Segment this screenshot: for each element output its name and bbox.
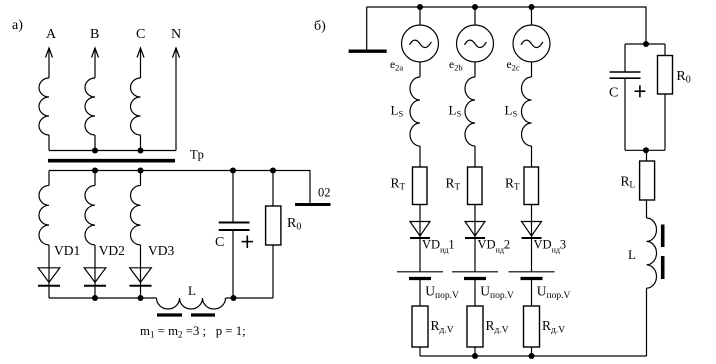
junction dot top-e2a — [417, 4, 423, 10]
svg-text:VDид3: VDид3 — [534, 238, 567, 255]
svg-text:LS: LS — [505, 103, 518, 119]
svg-text:VD1: VD1 — [54, 243, 80, 258]
wire R0 top lead — [272, 171, 274, 207]
inductor LS1 — [410, 77, 420, 146]
wire C winding to primary bus — [140, 135, 142, 151]
svg-text:Uпор.V: Uпор.V — [537, 284, 571, 302]
junction dot bottom-VD2 — [92, 295, 98, 301]
battery Upor2 — [452, 272, 498, 279]
bottom bus wire left — [49, 297, 157, 299]
input terminal bar — [349, 50, 387, 53]
phase N arrow / neutral wire — [173, 48, 180, 151]
svg-text:б): б) — [314, 19, 326, 34]
diode VD2 — [84, 268, 106, 286]
wire L to bottom bus — [646, 288, 648, 356]
inductor L (filter choke) — [157, 298, 226, 309]
wire R0b top lead — [664, 44, 666, 56]
resistor R0 — [266, 206, 281, 245]
svg-text:L: L — [188, 283, 196, 298]
bottom bus wire right — [226, 297, 274, 299]
wire RL to inductor L — [646, 200, 648, 218]
inductor LS2 — [465, 77, 475, 146]
wire VD1 to battery — [419, 239, 421, 272]
core bar 1 of L — [157, 313, 182, 316]
wire RdV3 to bottom bus — [531, 347, 533, 356]
wire secondary bus to winding w3 — [140, 171, 142, 186]
wire RdV2 to bottom bus — [474, 347, 476, 356]
junction dot secondary-w2 — [92, 168, 98, 174]
wire VD2 to bottom bus — [94, 286, 96, 298]
svg-text:B: B — [90, 27, 99, 42]
inductor L (circuit b) — [647, 218, 657, 288]
wire e2b to LS2 — [474, 62, 476, 77]
junction dot primary-B — [92, 148, 98, 154]
junction dot bottom-e2c branch — [529, 353, 535, 359]
secondary winding w2 — [85, 186, 95, 245]
transformer core Tp — [48, 159, 175, 163]
diode VDid1 — [410, 222, 430, 239]
resistor RT2 — [468, 167, 483, 205]
primary bus wire — [49, 150, 176, 152]
svg-text:e2a: e2a — [390, 59, 403, 73]
wire e2c to LS3 — [531, 62, 533, 77]
wire VD3 to battery — [531, 239, 533, 272]
input terminal wire — [366, 7, 368, 50]
svg-text:A: A — [46, 27, 57, 42]
resistor RdV3 — [524, 306, 540, 347]
svg-text:VDид1: VDид1 — [422, 238, 455, 255]
junction dot top-e2b — [472, 4, 478, 10]
phase C arrow — [137, 48, 144, 78]
junction dot primary-C — [138, 148, 144, 154]
svg-text:R0: R0 — [287, 216, 301, 233]
svg-text:e2b: e2b — [449, 59, 463, 73]
core bar 2 of L — [191, 313, 215, 316]
junction dot load top — [643, 41, 649, 47]
wire VD3 to bottom bus — [140, 286, 142, 298]
svg-text:R0: R0 — [676, 69, 690, 86]
wire R0b bottom lead — [664, 94, 666, 150]
polarity + of C — [242, 236, 254, 249]
svg-text:L: L — [628, 247, 636, 262]
svg-text:а): а) — [12, 18, 23, 33]
secondary winding w3 — [131, 186, 141, 245]
wire VD1 to bottom bus — [48, 286, 50, 298]
wire B winding to primary bus — [94, 135, 96, 151]
wire C bottom lead — [232, 231, 234, 299]
wire RT3 to VD3 — [531, 205, 533, 240]
svg-text:VD2: VD2 — [99, 243, 125, 258]
wire battery to RdV2 — [474, 280, 476, 306]
wire VD2 to battery — [474, 239, 476, 272]
resistor RL — [640, 161, 655, 200]
junction dot secondary-R0 branch — [270, 168, 276, 174]
resistor RdV2 — [467, 306, 483, 347]
svg-text:Rд.V: Rд.V — [542, 318, 565, 336]
wire secondary bus to winding w1 — [48, 171, 50, 186]
wire R0 bottom lead — [272, 245, 274, 298]
svg-text:C: C — [609, 86, 618, 101]
wire A winding to primary bus — [48, 135, 50, 151]
capacitor C plates — [219, 223, 250, 231]
resistor RT1 — [413, 167, 428, 205]
inductor LS3 — [522, 77, 532, 146]
svg-text:RL: RL — [621, 174, 636, 190]
wire parallel top connector — [625, 43, 665, 45]
wire bus to source e2a — [419, 7, 421, 25]
junction dot secondary-w3 — [138, 168, 144, 174]
wire C2 bottom lead — [624, 78, 626, 150]
svg-text:RT: RT — [391, 176, 406, 192]
primary winding C — [131, 78, 141, 135]
primary winding B — [85, 78, 95, 135]
wire w3 to diode VD3 — [140, 245, 142, 286]
svg-text:Rд.V: Rд.V — [486, 318, 509, 336]
svg-text:N: N — [171, 27, 181, 42]
junction dot bottom-e2b branch — [472, 353, 478, 359]
junction dot load bottom — [643, 147, 649, 153]
phase B arrow — [92, 48, 99, 78]
wire w2 to diode VD2 — [94, 245, 96, 286]
svg-text:RT: RT — [446, 176, 461, 192]
wire e2a to LS1 — [419, 62, 421, 77]
wire RT1 to VD1 — [419, 205, 421, 240]
core bar 1 of L (circuit b) — [661, 225, 665, 248]
svg-text:LS: LS — [391, 103, 404, 119]
capacitor C plates (circuit b) — [610, 72, 641, 78]
svg-text:m1 = m2 =3 ; p = 1;: m1 = m2 =3 ; p = 1; — [140, 324, 246, 340]
svg-text:C: C — [215, 235, 224, 250]
svg-text:Uпор.V: Uпор.V — [425, 284, 459, 302]
resistor RdV1 — [412, 306, 428, 347]
phase A arrow — [46, 48, 53, 78]
svg-text:Rд.V: Rд.V — [431, 318, 454, 336]
svg-text:VD3: VD3 — [148, 243, 174, 258]
svg-text:LS: LS — [449, 103, 462, 119]
svg-text:Tp: Tp — [190, 148, 204, 162]
wire to RL — [646, 150, 648, 161]
junction dot bottom-C branch — [231, 295, 237, 301]
diode VD3 — [130, 268, 152, 286]
junction dot bottom-VD3 — [138, 295, 144, 301]
svg-text:VDид2: VDид2 — [478, 238, 511, 255]
svg-text:RT: RT — [505, 176, 520, 192]
wire bus to source e2c — [531, 7, 533, 25]
polarity + of C (circuit b) — [635, 85, 646, 97]
svg-text:C: C — [136, 27, 145, 42]
wire LS1 to RT1 — [419, 146, 421, 167]
wire secondary bus to winding w2 — [94, 171, 96, 186]
junction dot secondary-C branch — [230, 168, 236, 174]
wire RT2 to VD2 — [474, 205, 476, 240]
diode VDid3 — [522, 222, 542, 239]
secondary bus wire / to 02 terminal — [49, 171, 310, 204]
primary winding A — [39, 78, 49, 135]
source e2a — [402, 25, 439, 62]
battery Upor3 — [509, 272, 555, 279]
bottom bus wire of circuit b — [420, 355, 647, 357]
secondary winding w1 — [39, 186, 49, 245]
terminal 02 bar — [295, 203, 331, 206]
wire RdV1 to bottom bus — [419, 347, 421, 356]
core bar 2 of L (circuit b) — [661, 256, 665, 279]
wire w1 to diode VD1 — [48, 245, 50, 286]
wire LS3 to RT3 — [531, 146, 533, 167]
source e2c — [513, 25, 550, 62]
battery Upor1 — [397, 272, 443, 279]
wire battery to RdV3 — [531, 280, 533, 306]
top bus wire of circuit b — [367, 7, 646, 44]
wire C2 top lead — [624, 44, 626, 72]
wire battery to RdV1 — [419, 280, 421, 306]
wire C top lead — [232, 171, 234, 223]
resistor R0 (circuit b) — [658, 56, 673, 95]
wire LS2 to RT2 — [474, 146, 476, 167]
resistor RT3 — [524, 167, 539, 205]
wire parallel bottom connector — [625, 149, 665, 151]
junction dot top-e2c — [529, 4, 535, 10]
svg-text:e2c: e2c — [507, 59, 520, 73]
diode VDid2 — [465, 222, 485, 239]
source e2b — [457, 25, 494, 62]
wire bus to source e2b — [474, 7, 476, 25]
svg-text:02: 02 — [318, 186, 331, 200]
diode VD1 — [38, 268, 60, 286]
svg-text:Uпор.V: Uпор.V — [480, 284, 514, 302]
